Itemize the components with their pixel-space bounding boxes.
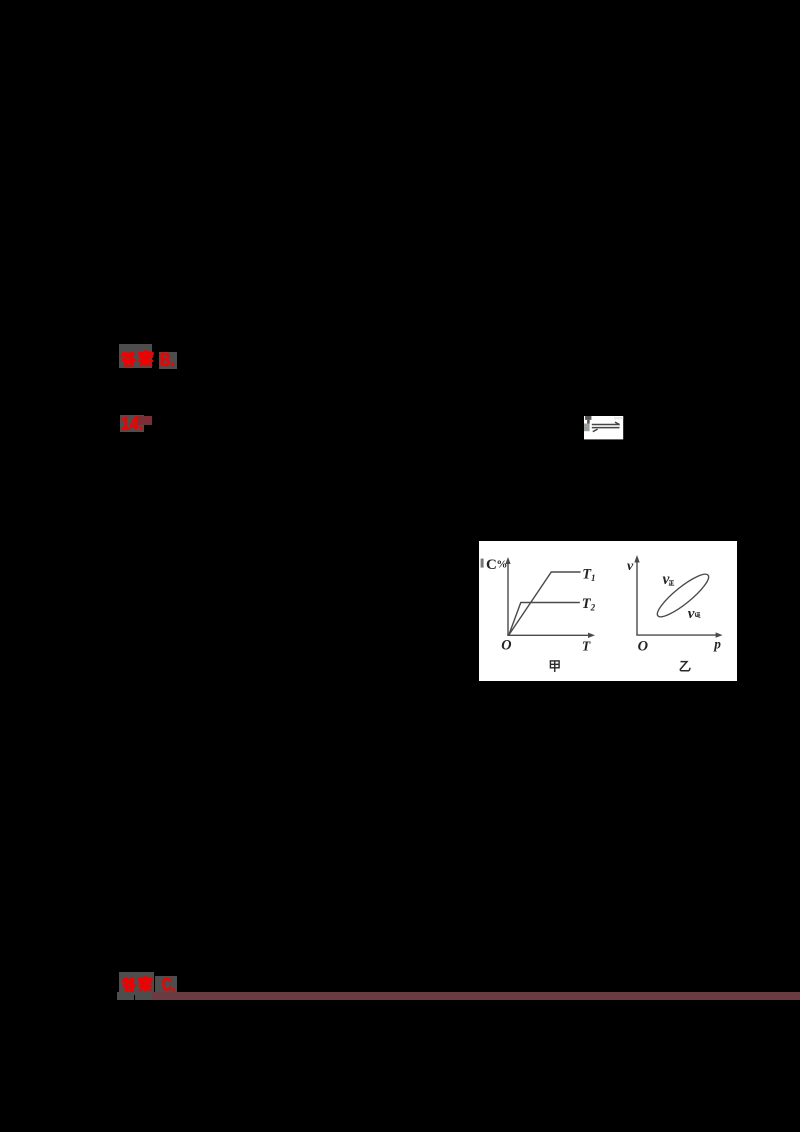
svg-text:v: v — [663, 571, 671, 588]
svg-text:p: p — [713, 636, 721, 651]
svg-text:v: v — [688, 606, 695, 622]
svg-text:C: C — [486, 557, 497, 573]
svg-text:v: v — [627, 559, 634, 574]
svg-text:O: O — [638, 639, 648, 655]
svg-text:%: % — [496, 559, 507, 571]
svg-text:O: O — [501, 637, 511, 653]
svg-text:T: T — [582, 638, 591, 653]
